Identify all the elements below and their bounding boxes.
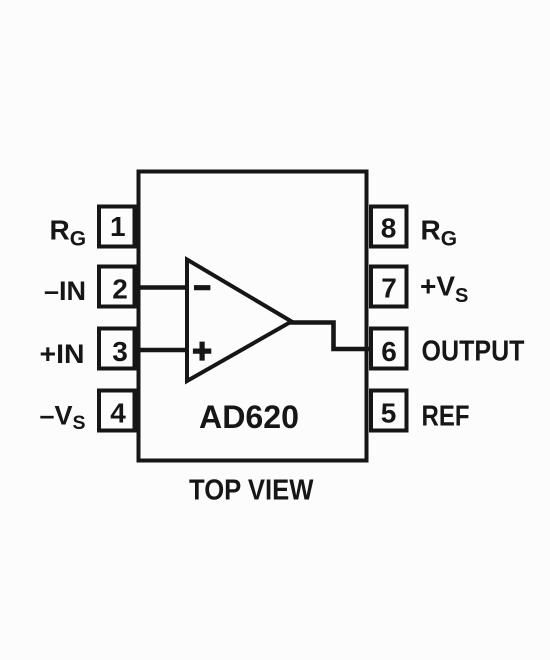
op-amp A1 triangle xyxy=(187,260,292,382)
pin 4 box xyxy=(99,391,135,431)
svg-text:5: 5 xyxy=(381,398,397,429)
svg-text:TOP VIEW: TOP VIEW xyxy=(189,473,314,505)
IC body U1 (AD620 package outline) xyxy=(139,172,367,461)
wire op-amp output to pin 6 xyxy=(290,323,372,350)
svg-text:OUTPUT: OUTPUT xyxy=(422,335,526,367)
svg-text:6: 6 xyxy=(381,336,397,367)
pin 7 box xyxy=(371,267,407,307)
svg-text:3: 3 xyxy=(112,336,128,367)
svg-text:REF: REF xyxy=(422,401,470,433)
pin 2 box xyxy=(99,267,135,307)
pin 6 box xyxy=(371,329,407,369)
wire pin3 to non-inverting input xyxy=(136,348,189,353)
pin 8 box xyxy=(371,207,407,247)
pin 1 box xyxy=(99,207,135,247)
op-amp inverting input minus sign xyxy=(194,285,210,290)
svg-text:2: 2 xyxy=(112,274,128,305)
svg-text:4: 4 xyxy=(110,398,126,429)
wire pin2 to inverting input xyxy=(136,285,189,290)
svg-text:1: 1 xyxy=(110,211,126,242)
pin 5 box xyxy=(371,391,407,431)
svg-text:8: 8 xyxy=(381,213,397,244)
svg-text:7: 7 xyxy=(381,273,397,304)
svg-text:–IN: –IN xyxy=(44,276,86,306)
svg-text:+IN: +IN xyxy=(40,339,85,369)
svg-text:AD620: AD620 xyxy=(199,399,299,435)
op-amp non-inverting input plus sign xyxy=(193,342,211,361)
pin 3 box xyxy=(99,329,135,369)
